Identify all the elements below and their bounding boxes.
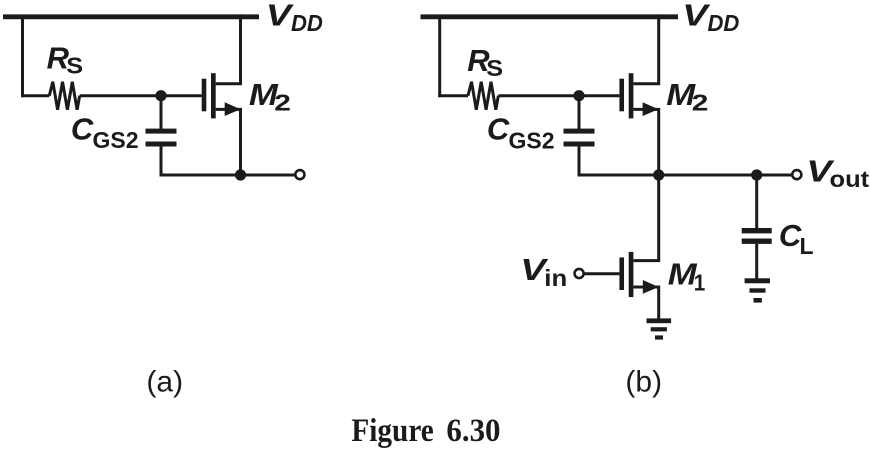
resistor RS (a)	[49, 82, 79, 110]
node: output node dot (a)	[235, 169, 246, 180]
wire: CL bottom lead to ground	[755, 244, 758, 279]
node: source output node dot (b)	[653, 169, 664, 180]
svg-text:2: 2	[274, 90, 291, 116]
svg-text:(b): (b)	[625, 366, 662, 399]
wire: gate wire right (a)	[80, 94, 202, 97]
wire: M1 source down to ground	[633, 287, 658, 319]
transistor M2 (a) gate bar	[202, 79, 207, 112]
svg-text:DD: DD	[291, 11, 323, 37]
wire: gate wire left lead (a)	[21, 94, 49, 97]
capacitor CGS2 (b) bottom plate	[564, 142, 595, 147]
wire: Vin gate lead	[583, 272, 619, 275]
wire: M2 (b) source down to output	[633, 109, 658, 175]
transistor M2 (b) gate bar	[619, 79, 624, 112]
transistor M1 source arrow	[643, 280, 659, 294]
wire: CL top lead	[755, 175, 758, 229]
svg-text:DD: DD	[708, 11, 740, 37]
wire: capacitor top lead (b)	[578, 96, 581, 129]
svg-text:V: V	[266, 0, 295, 33]
wire: gate wire left lead (b)	[438, 94, 468, 97]
VDD rail (b)	[421, 14, 679, 19]
capacitor CGS2 (b) top plate	[564, 129, 595, 134]
VDD rail (a)	[3, 14, 259, 19]
transistor M2 (b) channel bar	[629, 73, 634, 118]
svg-text:L: L	[800, 233, 814, 259]
svg-text:out: out	[830, 167, 870, 193]
svg-text:2: 2	[692, 90, 709, 116]
wire: M2 (a) drain to VDD	[216, 14, 241, 83]
transistor M2 (a) channel bar	[211, 73, 216, 118]
svg-text:6.30: 6.30	[446, 412, 500, 448]
wire: capacitor bottom lead down to output wire (b)	[579, 147, 792, 176]
svg-text:C: C	[487, 112, 510, 147]
capacitor CGS2 (a) bottom plate	[146, 142, 177, 147]
transistor M2 (a) source arrow	[225, 102, 241, 116]
ground: CL ground bar1	[745, 278, 770, 283]
svg-text:GS2: GS2	[93, 127, 139, 153]
wire: capacitor top lead (a)	[160, 96, 163, 129]
wire: gate wire right (b)	[498, 94, 619, 97]
node: gate node dot (a)	[155, 90, 166, 101]
wire: M2 (a) source down to output	[216, 109, 241, 175]
svg-text:GS2: GS2	[509, 128, 555, 154]
svg-text:V: V	[682, 0, 711, 33]
wire: left vertical from VDD rail (a)	[21, 17, 24, 97]
resistor RS (b)	[468, 82, 498, 110]
svg-text:S: S	[486, 56, 503, 82]
svg-text:Figure: Figure	[351, 411, 434, 448]
svg-text:C: C	[71, 112, 94, 147]
node: gate node dot (b)	[573, 90, 584, 101]
wire: M1 drain up to output node	[633, 175, 658, 261]
wire: M2 (b) drain to VDD	[633, 14, 658, 83]
svg-text:in: in	[544, 266, 567, 291]
capacitor CGS2 (a) top plate	[146, 129, 177, 134]
terminal: open Vin terminal	[575, 269, 584, 278]
terminal: open output terminal (a)	[295, 170, 304, 179]
ground: CL ground bar3	[754, 298, 762, 303]
transistor M2 (b) source arrow	[643, 102, 659, 116]
ground: M1 source ground bar3	[655, 335, 663, 339]
ground: CL ground bar2	[750, 288, 766, 292]
ground: M1 source ground bar1	[647, 318, 672, 323]
transistor M1 gate bar	[619, 257, 624, 290]
capacitor CL top plate	[742, 228, 772, 233]
svg-text:S: S	[66, 54, 83, 80]
transistor M1 channel bar	[629, 252, 634, 297]
node: CL branch node dot (b)	[751, 169, 762, 180]
wire: left vertical from VDD rail (b)	[438, 17, 441, 97]
svg-text:M: M	[668, 256, 698, 291]
svg-text:(a): (a)	[146, 365, 183, 398]
svg-text:C: C	[779, 218, 802, 253]
wire: capacitor bottom lead down to output wire (a)	[161, 147, 295, 176]
terminal: open Vout terminal (b)	[792, 170, 801, 179]
ground: M1 source ground bar2	[651, 327, 667, 331]
capacitor CL bottom plate	[742, 239, 772, 244]
svg-text:1: 1	[694, 269, 706, 295]
